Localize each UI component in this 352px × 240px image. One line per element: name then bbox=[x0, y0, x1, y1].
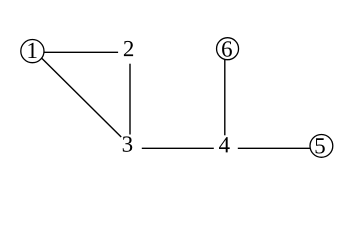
node 3 (vertex label) bbox=[123, 136, 133, 151]
node 6 (circled vertex) bbox=[217, 38, 239, 60]
node 2 (vertex label) bbox=[124, 41, 133, 56]
wire edge 2-3 bbox=[129, 64, 131, 135]
wire edge 1-3 bbox=[42, 58, 122, 137]
wire edge 6-4 bbox=[224, 59, 226, 136]
wire edge 3-4 bbox=[142, 147, 214, 149]
node 4 (vertex label) bbox=[219, 137, 230, 152]
node 5 (circled vertex) bbox=[310, 135, 333, 158]
wire edge 4-5 bbox=[238, 147, 311, 149]
wire edge 1-2 bbox=[43, 51, 118, 53]
node 1 (circled vertex) bbox=[21, 40, 44, 63]
